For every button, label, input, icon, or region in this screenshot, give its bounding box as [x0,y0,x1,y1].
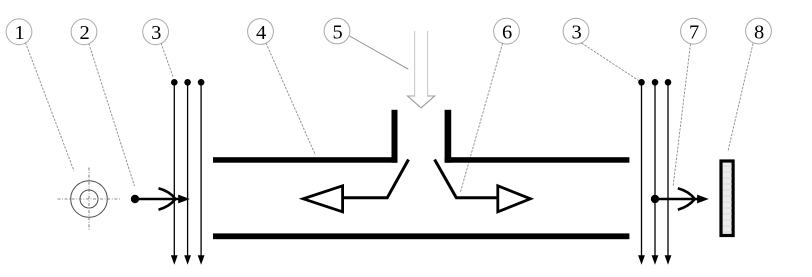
nozzle stub right [445,110,452,163]
leader line 4 [266,43,315,155]
leader line 3 (left) [161,43,173,78]
callout circle 6 [494,18,520,44]
svg-text:1: 1 [14,22,24,44]
deflected flow arrow right open head [498,186,531,212]
leader line 1 [25,43,74,172]
callout circle 8 [746,18,772,44]
channel top wall right segment [445,157,630,163]
beam output arrow curved barbs [678,188,695,209]
beam input arrow curved barbs [159,188,176,209]
beam input arrow shaft [135,198,180,201]
callout circle 4 [248,19,274,45]
flow lines group left: line b [184,79,191,265]
leader line 5 [350,36,409,69]
callout circle 7 [681,18,707,44]
detector (item 8): body [721,161,733,236]
svg-text:4: 4 [256,22,266,44]
svg-text:3: 3 [151,22,161,44]
beam output arrow shaft [655,198,699,201]
flow lines group right: line b [652,79,659,265]
leader line 6 [460,44,502,193]
deflected flow arrow right (item 6): flap and shaft [435,160,498,198]
deflected flow arrow left (item 6): flap and shaft [343,160,409,198]
flow lines group right (item 3): line a [638,79,645,265]
callout circle 3 (right) [563,18,589,44]
flow lines group right: line c [665,79,672,265]
sample flow arrow (item 5): white block arrow [408,31,435,108]
callout circle 1 [6,19,32,45]
svg-text:8: 8 [754,21,764,43]
deflected flow arrow left open head [303,186,342,212]
callout circle 3 (left) [143,19,169,45]
svg-text:2: 2 [79,22,89,44]
callout circle 2 [71,19,97,45]
svg-text:7: 7 [689,22,699,44]
channel top wall left segment (item 4) [213,157,398,163]
svg-text:5: 5 [332,21,342,43]
light source symbol (item 1): crosshair circles [58,168,121,231]
channel bottom wall [213,233,629,239]
beam output arrow (item 7): dot on middle line [651,195,659,203]
leader line 2 [89,44,135,187]
flow lines group left (item 3): line a [171,79,178,265]
callout circle 5 [324,18,350,44]
nozzle stub left [392,110,398,163]
beam input arrow filled head [179,195,189,202]
leader line 8 [728,44,753,152]
sample flow arrow head outline (darker) [408,96,435,108]
beam output arrow filled head [698,195,708,202]
flow lines group left: line c [198,79,205,265]
beam input arrow (item 2): dot [131,195,139,203]
leader line 3 (right) [582,43,639,81]
svg-text:3: 3 [571,22,581,44]
svg-text:6: 6 [502,22,512,44]
leader line 7 [673,44,691,187]
